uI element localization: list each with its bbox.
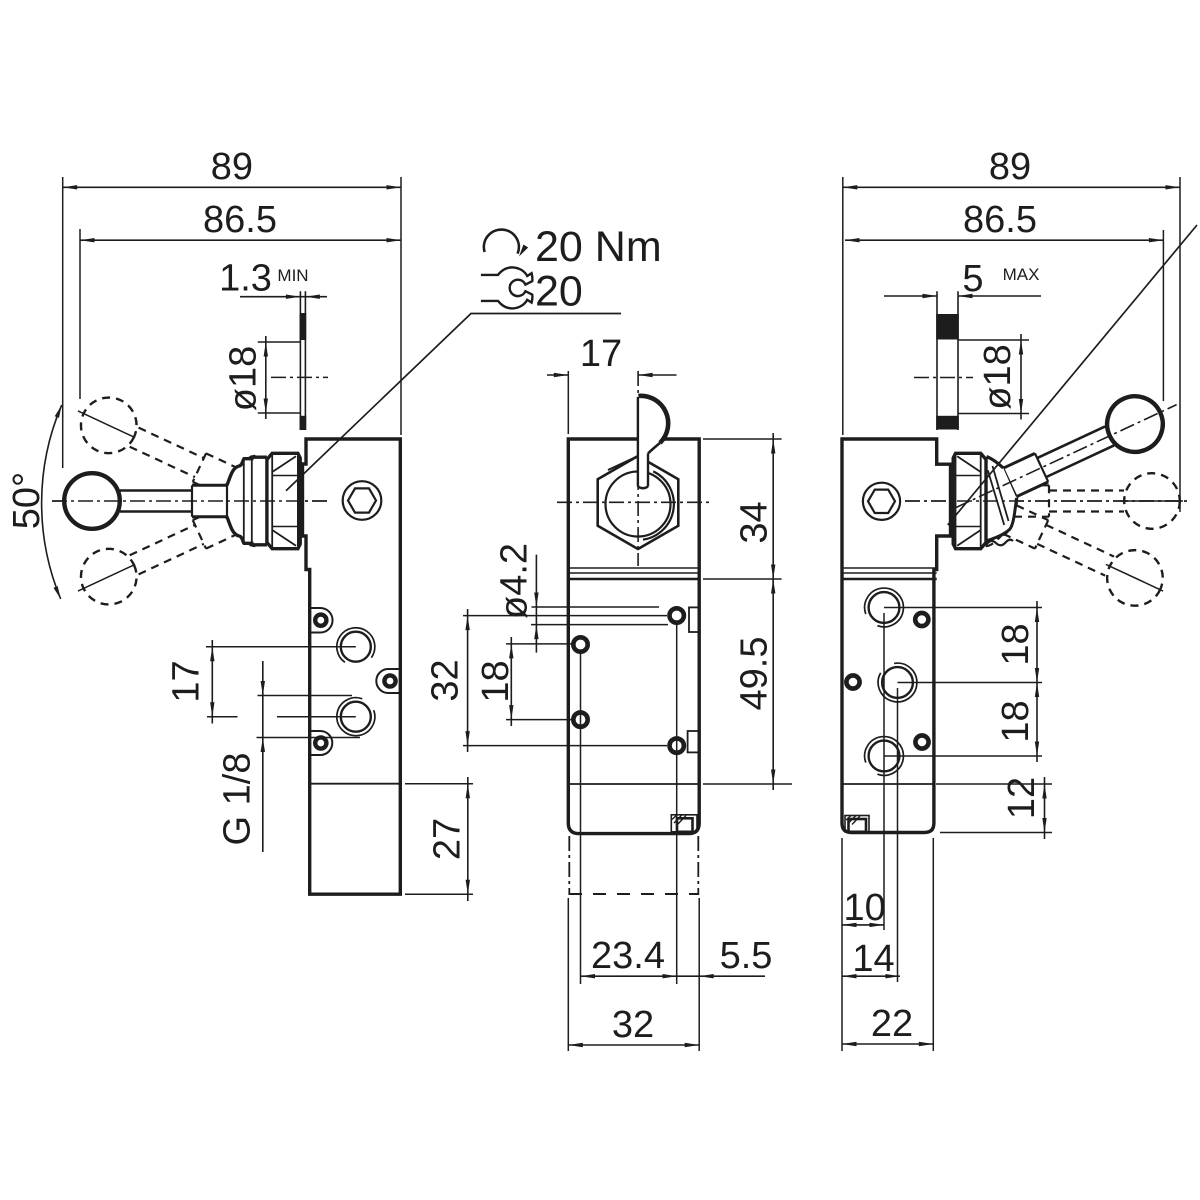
- svg-text:89: 89: [211, 146, 253, 188]
- right view: G1/8 port 3: [869, 741, 900, 772]
- solid lever rod (left view): [120, 489, 192, 492]
- svg-text:MAX: MAX: [1003, 265, 1040, 284]
- dim 89 (left view): [63, 186, 401, 188]
- panel plate centerline (right): [914, 377, 973, 379]
- solid lever ball (left view): [64, 473, 120, 529]
- dim 10 (right view): [842, 924, 884, 926]
- svg-text:20 Nm: 20 Nm: [535, 223, 662, 271]
- lever main centerline (left view): [52, 500, 330, 502]
- dim 86.5 (left view): [80, 239, 401, 241]
- dim 32 (front view left): [463, 615, 667, 617]
- dim 5 MAX: [884, 295, 937, 297]
- right view: hatched slot bottom-left: [845, 816, 869, 832]
- svg-text:10: 10: [843, 887, 885, 929]
- front view: bottom extension lines: [567, 898, 569, 1051]
- dim 12 (right view): [936, 783, 1052, 785]
- front view: valve body outline: [568, 439, 699, 834]
- right view: cap joint lines: [842, 567, 937, 569]
- front view: saddle line: [608, 457, 637, 471]
- mounting nut (right view): [953, 453, 986, 548]
- right view: bottom plate joint line: [842, 783, 934, 785]
- front view: sub-base phantom outline: [568, 836, 570, 895]
- panel plate 5 max (cross-section): [936, 291, 938, 430]
- dim o4.2: [532, 606, 660, 608]
- right view: bottom extension lines: [841, 838, 843, 1051]
- upper dashed lever position (left view): [63, 482, 258, 622]
- svg-text:23.4: 23.4: [591, 935, 665, 977]
- solid lever white underlay (left view): [227, 457, 267, 545]
- right view: G1/8 port 2: [882, 667, 913, 698]
- svg-text:ø18: ø18: [223, 346, 265, 411]
- dim 18 (front view left): [506, 643, 573, 645]
- dim 27 (left view): [405, 783, 473, 785]
- front view: toggle hook lever: [638, 396, 668, 488]
- svg-text:14: 14: [852, 938, 894, 980]
- left view: upper pilot port (stadium + ring): [310, 608, 333, 633]
- svg-text:86.5: 86.5: [963, 199, 1037, 241]
- front view: toggle centerline horizontal: [557, 501, 710, 503]
- front view: cap joint lines: [568, 567, 699, 569]
- svg-text:18: 18: [475, 660, 517, 702]
- lever main centerline (right view, over lever): [905, 500, 1190, 502]
- svg-text:89: 89: [989, 146, 1031, 188]
- svg-text:1.3: 1.3: [219, 258, 272, 300]
- right view: G1/8 port 1: [869, 592, 900, 623]
- torque note leader (right): [948, 225, 1197, 525]
- dim o18 (right view): [958, 339, 1029, 341]
- lever main centerline (left view, over lever): [52, 500, 330, 502]
- dim 49.5 (front view right): [772, 579, 774, 790]
- dim 5.5: [677, 975, 765, 977]
- mounting nut (left view): [267, 453, 300, 548]
- svg-text:49.5: 49.5: [733, 637, 775, 711]
- svg-text:G 1/8: G 1/8: [217, 753, 259, 846]
- svg-text:27: 27: [427, 818, 469, 860]
- dim o18 (left view): [258, 341, 301, 343]
- front view: right edge port slots: [689, 607, 699, 632]
- svg-text:32: 32: [612, 1004, 654, 1046]
- dim 18/18 (right view): [1036, 601, 1038, 762]
- torque note icon: circular arrow: [484, 230, 519, 254]
- right view: small pilot rings: [915, 613, 928, 626]
- right view: hex socket screw: [863, 483, 900, 520]
- front view: toggle centerline vertical: [637, 371, 639, 566]
- svg-text:34: 34: [733, 501, 775, 543]
- svg-text:22: 22: [871, 1003, 913, 1045]
- dim 1.3 MIN: [240, 296, 327, 298]
- svg-text:ø4.2: ø4.2: [494, 543, 536, 619]
- dim 86.5 (right view): [845, 239, 1163, 241]
- svg-text:MIN: MIN: [277, 266, 308, 285]
- front view: mounting holes: [573, 637, 587, 651]
- wrench icon: [481, 267, 533, 308]
- right view: port center verticals: [883, 613, 885, 930]
- right view: valve body outline: [842, 439, 951, 833]
- front view: toggle dome circles: [606, 472, 671, 537]
- left view: hex socket screw: [343, 481, 382, 520]
- svg-text:86.5: 86.5: [203, 199, 277, 241]
- svg-text:18: 18: [995, 700, 1037, 742]
- svg-text:5: 5: [962, 258, 983, 300]
- left view: G1/8 port 1 (circle + thread arc): [341, 632, 371, 662]
- horizontal dashed lever position (right view): [1001, 466, 1183, 536]
- lever boot (left view): [227, 457, 267, 485]
- front view: toggle hex nut: [598, 456, 679, 549]
- angle arc 50 deg: [42, 405, 62, 599]
- lower dashed lever position (right view): [983, 482, 1178, 622]
- svg-text:50°: 50°: [6, 472, 48, 529]
- svg-text:17: 17: [166, 660, 208, 702]
- dim 23.4: [581, 975, 678, 977]
- svg-text:18: 18: [995, 623, 1037, 665]
- svg-text:12: 12: [1001, 777, 1043, 819]
- dim 14 (right view): [842, 975, 900, 977]
- lower dashed lever position (left view): [63, 379, 258, 519]
- svg-text:20: 20: [535, 268, 583, 316]
- left view: lower pilot port (stadium + ring): [310, 731, 333, 755]
- panel plate centerline: [271, 376, 328, 378]
- dim 17 (front view top): [547, 374, 568, 376]
- dim 32 (front view bottom): [568, 1044, 699, 1046]
- lever main centerline (right view): [905, 500, 1190, 502]
- left view: G1/8 port 2 (circle + thread arc): [341, 702, 371, 732]
- front view: hole center extension verticals: [580, 651, 582, 985]
- svg-text:5.5: 5.5: [720, 935, 773, 977]
- solid lever (right view, raised 25deg): [998, 387, 1172, 507]
- svg-text:32: 32: [425, 659, 467, 701]
- boot break squiggle (right view): [986, 540, 1013, 546]
- svg-text:ø18: ø18: [977, 344, 1019, 409]
- right view: port leader lines: [884, 607, 1042, 609]
- panel plate 1.3 min (cross-section): [299, 291, 301, 430]
- solid lever axis centerline (right view): [955, 405, 1176, 508]
- svg-text:17: 17: [580, 333, 622, 375]
- left view: side exhaust port (stadium + ring): [376, 669, 400, 693]
- left view: port leader lines: [206, 646, 356, 648]
- lever boot (right view): [985, 457, 1017, 542]
- dim 34 (front view right): [703, 438, 782, 440]
- dim 89 (right view): [843, 186, 1180, 188]
- dim G 1/8 (thread, left view): [262, 661, 264, 852]
- front view: hatched slot bottom-right: [671, 815, 697, 832]
- torque note leader (left): [286, 314, 621, 491]
- left view: valve body outline: [303, 439, 401, 894]
- dim 17 (port spacing, left view): [211, 640, 213, 724]
- dim 22 (right view): [842, 1043, 933, 1045]
- front view: bottom plate joint line: [569, 783, 698, 785]
- solid lever collar (left view): [192, 484, 227, 487]
- left view: bottom plate joint line: [310, 783, 401, 785]
